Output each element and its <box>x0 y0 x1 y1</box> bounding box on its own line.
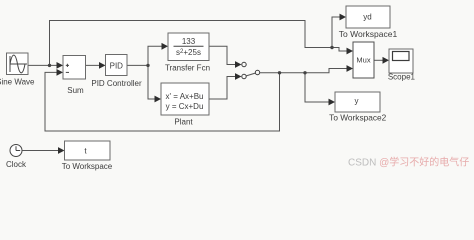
svg-text:Sum: Sum <box>67 86 84 95</box>
svg-text:y = Cx+Du: y = Cx+Du <box>166 102 204 111</box>
svg-text:PID Controller: PID Controller <box>91 79 142 88</box>
svg-text:Transfer Fcn: Transfer Fcn <box>165 64 210 73</box>
svg-text:Sine Wave: Sine Wave <box>0 78 35 87</box>
svg-text:x' = Ax+Bu: x' = Ax+Bu <box>166 92 204 101</box>
svg-text:To Workspace2: To Workspace2 <box>329 113 386 123</box>
svg-text:Mux: Mux <box>356 55 370 64</box>
svg-text:To Workspace1: To Workspace1 <box>339 29 398 39</box>
svg-text:Clock: Clock <box>6 160 27 169</box>
svg-text:PID: PID <box>110 61 124 70</box>
svg-text:yd: yd <box>363 13 371 22</box>
svg-text:y: y <box>355 97 359 106</box>
svg-text:To Workspace: To Workspace <box>62 162 113 171</box>
svg-text:133: 133 <box>182 37 196 46</box>
svg-text:Scope1: Scope1 <box>388 73 416 82</box>
svg-text:s2+25s: s2+25s <box>176 48 201 57</box>
svg-text:Plant: Plant <box>174 118 193 127</box>
svg-text:CSDN @学习不好的电气仔: CSDN @学习不好的电气仔 <box>348 156 469 169</box>
